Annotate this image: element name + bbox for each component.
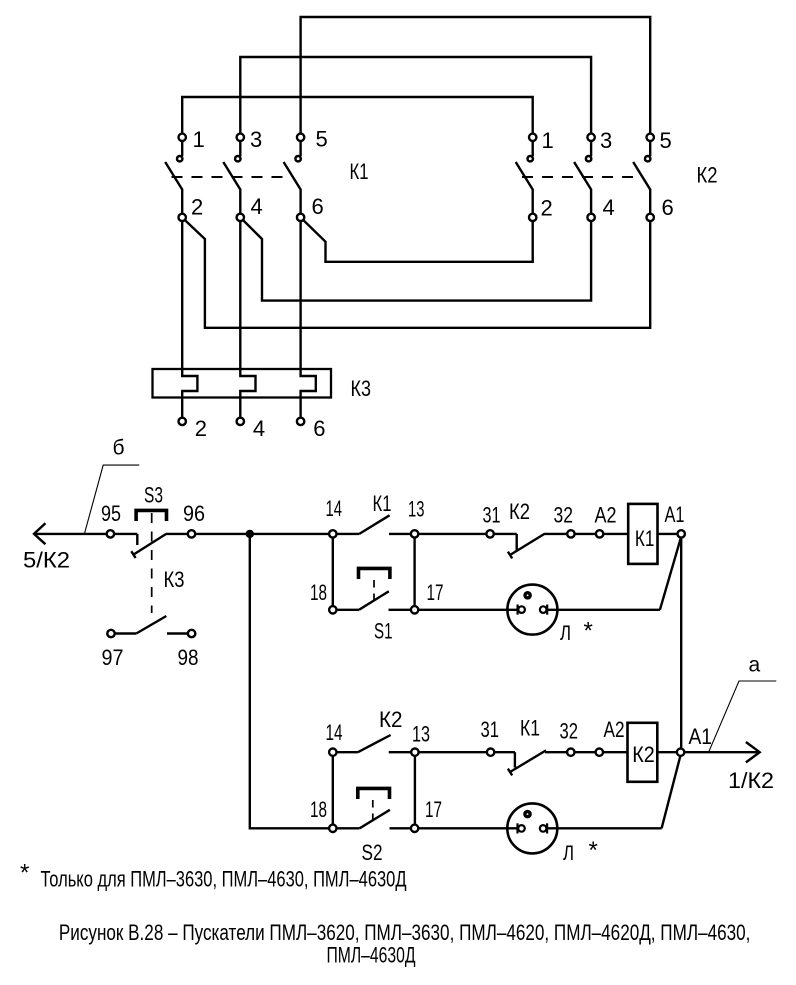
terminal 32 — [567, 530, 574, 537]
lamp L rung1 right pin — [540, 606, 547, 613]
wire S2 fixed side to 17 rung2 — [390, 827, 411, 829]
svg-text:5: 5 — [660, 128, 672, 153]
svg-text:6: 6 — [312, 194, 324, 219]
contactor K1 terminal 2 — [179, 214, 186, 221]
lamp L rung1 top contact dot — [523, 591, 532, 600]
contactor K2 terminal 4 — [587, 214, 594, 221]
svg-text:4: 4 — [251, 194, 263, 219]
contactor K1 pole 1-2 terminal 1 — [179, 134, 186, 141]
K3 output terminal 6 — [297, 418, 304, 425]
right arrow head 1/K2 — [746, 742, 760, 762]
svg-text:1/К2: 1/К2 — [728, 768, 774, 793]
svg-text:3: 3 — [250, 127, 262, 152]
S1 actuator dashed line — [373, 580, 375, 602]
K2 lever end cross tick — [508, 552, 512, 559]
wire 18 to S1 lever — [337, 609, 360, 611]
svg-text:14: 14 — [326, 720, 343, 745]
wire A1 to right arrow — [684, 751, 758, 753]
svg-text:А1: А1 — [665, 502, 685, 527]
wire 31 to K1 tick rung2 — [494, 751, 515, 753]
S2 NO contact lever — [360, 810, 390, 829]
terminal 32 rung2 — [567, 749, 574, 756]
svg-text:Л: Л — [560, 621, 571, 645]
wire 13 to 31 rung2 — [419, 751, 487, 753]
wire 31 to K2 tick — [494, 533, 517, 535]
wire K2 to 32 — [544, 533, 567, 535]
wire 17 to lamp rung2 — [418, 827, 517, 829]
svg-text:К1: К1 — [373, 491, 392, 516]
svg-text:32: 32 — [554, 503, 574, 528]
svg-text:Л: Л — [563, 841, 574, 865]
mechanical link dashed K1 — [172, 176, 292, 178]
lamp L rung1 left pin — [516, 605, 518, 615]
svg-text:К2: К2 — [632, 742, 655, 767]
wire crossover K1-4 to K2-4 — [243, 220, 591, 301]
contactor K2 fixed contact stem pole 3 — [590, 141, 592, 156]
wire K1 to 32 rung2 — [545, 751, 567, 753]
K3 heater element 2 with wire — [182, 221, 197, 417]
wire 18 up to 14 rung2 — [332, 756, 334, 825]
wire 32 to A2 — [575, 533, 596, 535]
terminal 14 rung2 — [329, 749, 336, 756]
svg-text:4: 4 — [253, 416, 265, 441]
svg-text:А1: А1 — [689, 724, 713, 749]
wire 14 to K1 lever — [337, 533, 360, 535]
terminal 31 rung2 — [487, 749, 494, 756]
terminal A2 — [596, 530, 603, 537]
svg-text:*: * — [589, 837, 598, 864]
S3 fixed contact tick — [136, 534, 138, 545]
wire A2 to coil K2 — [603, 751, 628, 753]
svg-text:Только для ПМЛ–3630, ПМЛ–4630,: Только для ПМЛ–3630, ПМЛ–4630, ПМЛ–4630Д — [41, 867, 407, 892]
contactor K1 fixed contact hook pole 5 — [295, 156, 300, 161]
contactor K1 pole 5-6 terminal 5 — [297, 134, 304, 141]
svg-text:18: 18 — [310, 580, 327, 605]
wire lamp to diagonal — [547, 609, 660, 611]
svg-text:18: 18 — [310, 797, 327, 822]
terminal 18 rung2 — [329, 825, 336, 832]
K3 NO contact lever — [136, 616, 166, 634]
svg-text:14: 14 — [326, 496, 343, 521]
contactor K1 terminal 6 — [297, 214, 304, 221]
svg-text:а: а — [749, 654, 761, 677]
svg-text:13: 13 — [412, 722, 430, 747]
coil K2 box — [628, 723, 658, 782]
junction node dot — [246, 530, 254, 538]
terminal 18 — [329, 606, 336, 613]
terminal A2 rung2 — [596, 749, 603, 756]
svg-text:*: * — [20, 860, 29, 887]
svg-text:5/К2: 5/К2 — [23, 548, 70, 573]
contactor K2 fixed contact stem pole 5 — [649, 141, 651, 156]
wire coil K1 to A1 — [658, 533, 678, 535]
wire K1 fixed side to 13 — [389, 533, 411, 535]
svg-text:*: * — [584, 618, 593, 645]
contactor K1 fixed contact hook pole 3 — [235, 156, 240, 161]
wire 13 down to 17 rung2 — [414, 756, 416, 825]
wire crossover K1-6 to K2-2 — [303, 220, 533, 262]
terminal A1 — [678, 530, 685, 537]
S3/K3 actuator dashed line — [151, 513, 153, 613]
K3 contact terminal 98 — [188, 630, 195, 637]
leader line a — [709, 681, 777, 752]
svg-text:2: 2 — [541, 196, 553, 221]
S1 pushbutton head — [359, 568, 390, 579]
contactor K2 moving contact lever pole 3-4 — [574, 162, 591, 214]
svg-text:98: 98 — [178, 645, 199, 670]
contactor K2 fixed contact hook pole 3 — [586, 156, 591, 161]
svg-text:13: 13 — [408, 497, 425, 522]
svg-text:2: 2 — [191, 195, 203, 220]
svg-text:S1: S1 — [374, 619, 393, 644]
wire middle feeder L2 (K1 pole3 to K2 pole3) — [240, 57, 591, 133]
svg-text:1: 1 — [542, 128, 554, 153]
K3 contact terminal 97 — [107, 630, 114, 637]
wire A1 down to rung2 A1 — [680, 538, 682, 749]
wire 17 to lamp — [418, 609, 517, 611]
wire 18 to S2 lever — [337, 827, 360, 829]
wire A2 to coil K1 — [603, 533, 628, 535]
wire lamp rung2 to diagonal — [547, 827, 662, 829]
wire K2 fixed side to 13 rung2 — [389, 751, 412, 753]
contactor K1 terminal 4 — [237, 214, 244, 221]
contactor K1 pole 3-4 terminal 3 — [237, 134, 244, 141]
svg-text:31: 31 — [481, 717, 500, 742]
K1 lever end cross tick rung2 — [508, 769, 512, 776]
leader line b — [84, 465, 139, 534]
svg-text:96: 96 — [183, 501, 205, 526]
lamp L rung2 left pin — [516, 823, 518, 833]
contactor K1 moving contact lever pole 1-2 — [165, 162, 182, 214]
terminal 96 — [188, 530, 195, 537]
svg-text:4: 4 — [603, 195, 615, 220]
svg-text:К2: К2 — [697, 163, 718, 188]
S2 actuator dashed line — [372, 800, 374, 821]
contactor K2 fixed contact hook pole 1 — [528, 156, 533, 161]
svg-text:17: 17 — [425, 797, 442, 822]
S3 lever end cross tick — [131, 551, 135, 558]
svg-text:3: 3 — [600, 128, 612, 153]
S3 pushbutton head — [136, 510, 166, 521]
svg-text:Рисунок В.28 – Пускатели ПМЛ–3: Рисунок В.28 – Пускатели ПМЛ–3620, ПМЛ–3… — [59, 920, 751, 945]
wire arrow to terminal 95 — [34, 533, 107, 535]
contactor K1 fixed contact stem pole 3 — [239, 141, 241, 156]
wire coil K2 to A1 rung2 — [657, 751, 677, 753]
svg-text:ПМЛ–4630Д: ПМЛ–4630Д — [327, 943, 416, 968]
terminal 17 — [411, 606, 418, 613]
terminal 13 — [411, 530, 418, 537]
svg-text:К1: К1 — [350, 159, 369, 184]
wire 95 to S3 fixed contact — [114, 533, 137, 535]
contactor K2 fixed contact hook pole 5 — [645, 156, 650, 161]
mechanical link dashed K2 — [522, 176, 642, 178]
svg-text:К1: К1 — [635, 526, 655, 551]
lamp L rung2 outer circle — [507, 803, 557, 853]
wire 13 to 31 — [418, 533, 486, 535]
svg-text:95: 95 — [101, 501, 121, 526]
wire 13 down to 17 — [413, 538, 415, 607]
svg-text:А2: А2 — [604, 717, 625, 742]
K2 NC fixed contact tick — [516, 534, 518, 551]
wire 96 to 14 — [195, 533, 329, 535]
coil K1 box — [628, 504, 657, 564]
contactor K2 moving contact lever pole 5-6 — [633, 162, 650, 214]
terminal 95 — [107, 530, 114, 537]
wire junction down to rung2 terminal 18 — [250, 534, 329, 828]
wire S3 to terminal 96 — [166, 533, 188, 535]
thermal relay K3 box — [153, 369, 332, 398]
S1 NO contact lever — [359, 591, 389, 610]
wire S1 fixed side to 17 — [389, 609, 411, 611]
contactor K1 moving contact lever pole 3-4 — [223, 162, 240, 214]
contactor K1 fixed contact stem pole 5 — [299, 141, 301, 156]
wire top feeder L3 (K1 pole5 to K2 pole5) — [301, 17, 651, 133]
svg-text:31: 31 — [483, 503, 501, 528]
contactor K2 fixed contact stem pole 1 — [532, 141, 534, 156]
K2 NC contact lever — [510, 534, 544, 555]
contactor K2 pole 5-6 terminal 5 — [647, 134, 654, 141]
S3 break contact lever — [133, 534, 166, 555]
svg-text:32: 32 — [560, 719, 579, 744]
svg-text:5: 5 — [316, 127, 328, 152]
svg-text:97: 97 — [102, 645, 124, 670]
K1 NC fixed contact tick rung2 — [514, 752, 516, 767]
wire 97 to lever — [115, 632, 137, 634]
svg-text:К2: К2 — [379, 707, 403, 732]
contactor K1 fixed contact stem pole 1 — [181, 141, 183, 156]
contactor K2 pole 3-4 terminal 3 — [587, 134, 594, 141]
svg-text:б: б — [113, 437, 125, 460]
terminal 17 rung2 — [411, 825, 418, 832]
terminal 31 — [486, 530, 493, 537]
svg-text:К3: К3 — [351, 376, 372, 401]
lamp L rung2 right pin — [540, 825, 547, 832]
wire lower feeder L1 (K1 pole1 to K2 pole1) — [182, 97, 533, 133]
svg-text:К3: К3 — [164, 567, 185, 592]
terminal A1 rung2 — [677, 749, 684, 756]
contactor K2 terminal 6 — [647, 214, 654, 221]
wire crossover K1-2 to K2-6 — [185, 220, 650, 328]
S2 pushbutton head — [358, 788, 390, 799]
K3 heater element 4 with wire — [240, 221, 255, 417]
contactor K2 terminal 2 — [529, 214, 536, 221]
svg-text:К2: К2 — [509, 499, 530, 524]
svg-text:6: 6 — [662, 195, 674, 220]
svg-text:1: 1 — [193, 127, 205, 152]
terminal 14 — [329, 530, 336, 537]
svg-text:К1: К1 — [520, 716, 540, 741]
svg-text:2: 2 — [195, 416, 207, 441]
wire fixed side to 98 — [167, 632, 188, 634]
lamp L rung1 outer circle — [507, 585, 557, 635]
wire 14 to K2 lever rung2 — [337, 751, 358, 753]
left arrow to 5/K2 — [34, 523, 45, 544]
contactor K1 fixed contact hook pole 1 — [177, 156, 182, 161]
K1 NC contact lever rung2 — [510, 750, 546, 772]
wire diagonal lamp return to A1 — [660, 538, 681, 610]
K3 heater element 6 with wire — [301, 221, 316, 417]
wire 32 to A2 rung2 — [575, 751, 596, 753]
K1 NO contact lever — [359, 515, 389, 534]
svg-text:S3: S3 — [144, 483, 163, 508]
contactor K2 moving contact lever pole 1-2 — [516, 162, 533, 214]
K2 NO contact lever rung2 — [358, 735, 391, 752]
terminal 13 rung2 — [411, 749, 418, 756]
svg-text:S2: S2 — [362, 840, 383, 865]
contactor K1 moving contact lever pole 5-6 — [284, 162, 301, 214]
wire diagonal lamp return to A1 rung2 — [662, 757, 681, 829]
lamp L rung2 top contact dot — [523, 810, 532, 819]
svg-text:6: 6 — [313, 416, 325, 441]
K3 output terminal 4 — [237, 418, 244, 425]
K3 output terminal 2 — [179, 418, 186, 425]
svg-text:А2: А2 — [595, 503, 617, 528]
wire 14 down to 18 — [332, 538, 334, 607]
svg-text:17: 17 — [427, 580, 444, 605]
contactor K2 pole 1-2 terminal 1 — [529, 134, 536, 141]
